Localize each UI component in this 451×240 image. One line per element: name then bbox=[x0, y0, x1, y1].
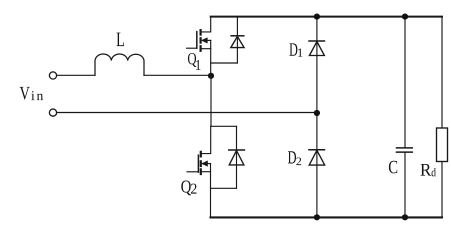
Rd body bbox=[437, 128, 448, 162]
label D1 bbox=[289, 43, 302, 56]
junction dot top C bbox=[402, 14, 408, 20]
label Q2 bbox=[181, 180, 196, 195]
Rd bottom wire bbox=[441, 162, 443, 218]
inductor L bbox=[95, 54, 144, 75]
Q1 diode anode wire bbox=[211, 62, 238, 64]
Q1 channel bars bbox=[200, 30, 202, 51]
Q2 diode wire bbox=[236, 126, 238, 188]
wire inductor to node bbox=[144, 74, 211, 76]
terminal Vin+ bbox=[49, 72, 56, 79]
label C bbox=[389, 161, 397, 174]
transistor Q2 bbox=[187, 76, 237, 218]
Q1 body stub with arrow bbox=[203, 39, 211, 41]
capacitor C bbox=[397, 17, 413, 218]
Q2 source stub bbox=[201, 171, 211, 173]
junction dot bottom C bbox=[402, 214, 408, 220]
diode Q1 body diode bbox=[211, 17, 244, 63]
D1 wire bbox=[316, 17, 318, 113]
diode D1 bbox=[309, 17, 325, 113]
Q1 diode cathode bar bbox=[231, 35, 244, 37]
D1 triangle bbox=[309, 42, 324, 56]
Q2 jog to diode bbox=[211, 125, 237, 127]
Q1 gate lead bbox=[187, 47, 197, 49]
D2 wire bbox=[316, 113, 318, 217]
Rd top wire bbox=[441, 17, 443, 128]
junction dot bottom D2 bbox=[314, 214, 320, 220]
C bottom plate bbox=[397, 151, 413, 153]
Q2 diode anode jog bbox=[211, 187, 237, 189]
label Q1 bbox=[188, 53, 201, 70]
Q2 source wire to bottom rail bbox=[210, 164, 212, 218]
Q1 diode wire bbox=[236, 17, 238, 63]
label Vin bbox=[20, 87, 43, 100]
transistor Q1 bbox=[187, 17, 211, 76]
Q2 diode cathode bar bbox=[229, 149, 245, 151]
C top plate bbox=[397, 147, 413, 149]
D2 triangle bbox=[309, 150, 325, 165]
Q1 source wire to node bbox=[210, 40, 212, 75]
D2 cathode bar bbox=[309, 149, 325, 151]
Q2 drain feed wire bbox=[210, 76, 212, 127]
resistor Rd bbox=[437, 17, 448, 218]
label L bbox=[117, 33, 124, 46]
terminal Vin- bbox=[49, 109, 56, 116]
D1 cathode bar bbox=[309, 40, 325, 42]
Q1 source stub bbox=[201, 48, 211, 50]
wire top rail bbox=[211, 16, 442, 18]
node after L bbox=[208, 73, 214, 79]
C bottom wire bbox=[404, 152, 406, 217]
Q1 gate bar bbox=[196, 32, 198, 49]
diode Q2 body diode bbox=[229, 126, 245, 188]
Q2 drain wire bbox=[201, 126, 211, 153]
junction dot top D1 bbox=[314, 14, 320, 20]
C top wire bbox=[404, 17, 406, 148]
Q1 drain wire bbox=[201, 17, 211, 32]
Q1 diode triangle bbox=[231, 36, 244, 47]
Q2 diode triangle bbox=[229, 151, 244, 165]
label Rd bbox=[420, 164, 435, 176]
Q2 gate lead bbox=[187, 171, 198, 173]
Q2 channel bars bbox=[200, 152, 202, 174]
junction dot mid D1 D2 bbox=[314, 110, 320, 116]
Q2 gate bar bbox=[197, 155, 199, 172]
wire bottom rail bbox=[211, 216, 443, 218]
wire Vin+ lead bbox=[57, 74, 95, 76]
label D2 bbox=[288, 151, 301, 165]
Q2 body stub with arrow bbox=[203, 163, 210, 165]
wire Vin- to D junction bbox=[57, 112, 317, 114]
diode D2 bbox=[309, 113, 325, 217]
